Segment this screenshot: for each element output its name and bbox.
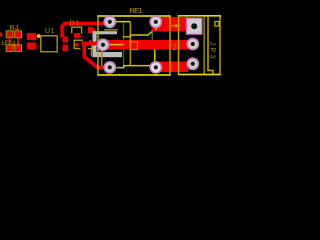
svg-text:2: 2 — [173, 43, 178, 52]
diode D1 pad 2 — [88, 27, 93, 33]
transistor Q1 orange dot — [89, 40, 91, 42]
test point via — [37, 34, 41, 38]
relay pad D — [103, 61, 116, 74]
relay pad E — [149, 61, 162, 74]
wire silk Q1 corner drop — [91, 49, 92, 57]
relay coil body grey bottom bar — [93, 52, 123, 57]
svg-text:RE1: RE1 — [130, 6, 143, 15]
connector pin 3 — [186, 57, 199, 70]
wire silk lever diagonal — [147, 31, 153, 35]
svg-text:JP3: JP3 — [209, 42, 216, 59]
red band relay pad C to connector pin 2 — [104, 40, 188, 50]
relay pad A — [103, 15, 116, 28]
red pour relay pad E to connector pin 3 — [157, 62, 188, 73]
connector pin 2 — [186, 38, 199, 51]
wire silk pad C exit right — [110, 44, 124, 46]
connector inner vertical line — [204, 16, 205, 74]
connector pin 1 (square) — [186, 18, 202, 34]
red pour relay pad B to connector pin 1 — [157, 17, 188, 31]
polarity arrow on pour — [172, 24, 179, 28]
wire Q1 pad2 to relay pad C — [86, 42, 105, 46]
connector key bracket step — [207, 70, 213, 74]
wire R1 pad2 to LED1 pad2 — [17, 38, 19, 45]
LED LED1 pad 1 — [6, 45, 13, 52]
green net line vertical upper — [123, 23, 124, 41]
diode D1 outline — [72, 27, 82, 33]
board background — [0, 0, 224, 83]
resistor R1 pad 1 — [6, 31, 13, 38]
IC U1 pad 1 (right top) — [63, 37, 69, 43]
wire R1 pad1 to LED1 pad1 — [9, 38, 11, 45]
relay pad B — [149, 15, 162, 28]
LED LED1 polarity mark — [13, 44, 15, 47]
connector key bracket vertical — [207, 16, 208, 71]
connector JP3 outline — [178, 16, 221, 75]
wire silk inner left vertical — [101, 45, 102, 66]
wire silk coil to lever — [130, 34, 148, 36]
resistor R1 pad 2 — [15, 31, 22, 38]
wire R1 pad2 top stub — [15, 28, 17, 31]
svg-text:U1: U1 — [45, 28, 55, 35]
relay pad C — [97, 38, 110, 51]
relay RE1 outline — [97, 16, 170, 75]
relay coil body grey left bar — [93, 31, 97, 57]
wire silk pad D step up — [123, 66, 124, 69]
wire silk bottom horizontal to pad E — [123, 65, 154, 67]
orange pad box on band — [130, 42, 137, 50]
wire silk T horizontal — [123, 36, 131, 38]
LED LED1 pad 2 — [15, 45, 22, 52]
capacitor pad bottom (left of U1) — [27, 43, 37, 50]
wire D1 pad2 right stub — [93, 28, 95, 33]
capacitor pad top (left of U1) — [27, 33, 37, 40]
green net stub at lever — [152, 32, 153, 41]
wire silk pad D exit — [117, 67, 125, 69]
diode D1 pad 1 — [74, 33, 81, 38]
wire silk pad B down stub — [155, 23, 157, 31]
wire stub to left board edge — [0, 33, 2, 37]
relay coil body grey top bar — [93, 31, 118, 34]
wire Q1 pad2 down to relay pad D — [84, 46, 104, 68]
yellow net line vertical long — [130, 22, 132, 65]
IC U1 pad 2 (right bottom) — [63, 45, 69, 52]
transistor Q1 pad 1 (round) — [75, 43, 79, 47]
wire silk pad E up stub — [154, 50, 156, 63]
svg-text:D1: D1 — [70, 20, 80, 27]
wire U1 pad1 to relay pad A — [62, 23, 105, 37]
wire silk pad A to coil — [116, 21, 131, 23]
transistor Q1 pad 2 — [82, 42, 86, 47]
connector key small box — [215, 22, 219, 27]
green net line vertical lower — [123, 50, 124, 66]
transistor Q1 outline — [74, 40, 92, 48]
relay coil silk top line — [104, 29, 118, 30]
IC U1 outline — [41, 36, 57, 52]
